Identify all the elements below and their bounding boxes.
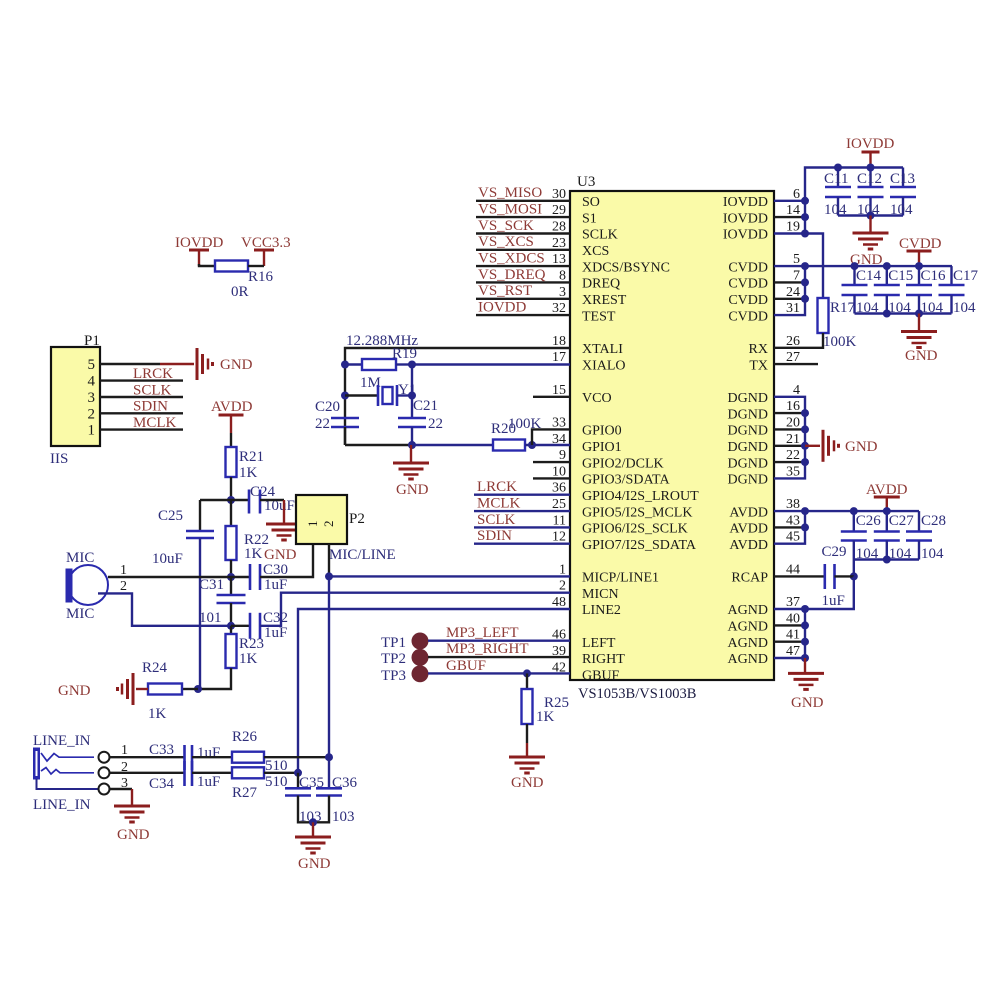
resistor R21 bbox=[226, 447, 237, 477]
capacitor C29 bbox=[823, 575, 825, 577]
svg-text:8: 8 bbox=[559, 268, 566, 283]
svg-text:12: 12 bbox=[552, 530, 566, 545]
svg-text:28: 28 bbox=[552, 220, 566, 235]
node line filter ground junction bbox=[309, 818, 317, 826]
ground rail under crystal bbox=[345, 444, 412, 446]
svg-text:1: 1 bbox=[120, 563, 127, 578]
svg-text:31: 31 bbox=[786, 301, 800, 316]
svg-text:C21: C21 bbox=[413, 398, 438, 414]
svg-text:R26: R26 bbox=[232, 729, 258, 745]
node GBUF junction bbox=[523, 669, 531, 677]
svg-text:2: 2 bbox=[120, 579, 127, 594]
svg-text:1uF: 1uF bbox=[264, 625, 287, 641]
svg-text:AGND: AGND bbox=[728, 603, 768, 618]
wire TP1 net MP3_LEFT bbox=[428, 640, 570, 642]
wire CVDD pin bus bbox=[774, 266, 805, 315]
svg-text:XREST: XREST bbox=[582, 293, 627, 308]
node C11 rail junction bbox=[834, 164, 842, 172]
wire jack pin3 to GND bbox=[110, 788, 133, 790]
svg-text:GND: GND bbox=[791, 695, 824, 711]
svg-text:1K: 1K bbox=[239, 465, 258, 481]
resistor R20 bbox=[493, 440, 525, 451]
wire rail to R24 bbox=[182, 688, 198, 690]
svg-text:47: 47 bbox=[786, 644, 800, 659]
svg-text:3: 3 bbox=[88, 390, 96, 406]
capacitor C33 bbox=[183, 745, 186, 770]
wire XIALO column to C21 bbox=[411, 365, 413, 418]
svg-text:41: 41 bbox=[786, 628, 800, 643]
svg-text:32: 32 bbox=[552, 301, 566, 316]
wire bias node to C25 bbox=[200, 499, 231, 501]
svg-text:C34: C34 bbox=[149, 776, 175, 792]
capacitor C36 bbox=[328, 757, 330, 788]
capacitor C30 bbox=[231, 576, 250, 578]
node CVDD bottom rail junction 1 bbox=[883, 310, 891, 318]
wire net VS_XCS to U3 bbox=[476, 249, 570, 251]
node CVDD bottom rail junction 2 bbox=[915, 310, 923, 318]
wire R21 to bias node bbox=[230, 477, 232, 500]
U3 pin stub bbox=[533, 461, 570, 463]
svg-text:GBUF: GBUF bbox=[446, 658, 486, 674]
wire TP3 net GBUF bbox=[428, 672, 570, 674]
svg-text:C30: C30 bbox=[263, 562, 288, 578]
wire net LRCK to U3 GPIO bbox=[474, 494, 570, 496]
resistor R22 bbox=[230, 500, 232, 526]
svg-text:9: 9 bbox=[559, 448, 566, 463]
svg-text:20: 20 bbox=[786, 415, 800, 430]
wire P1 pin5 to GND bbox=[100, 363, 160, 365]
ground symbol (R25) bbox=[509, 756, 545, 759]
resistor R27 bbox=[232, 767, 264, 778]
capacitor C20 bbox=[331, 417, 359, 420]
U3 pin TX stub bbox=[774, 363, 818, 365]
node DGND junction row 14 bbox=[801, 425, 809, 433]
svg-text:1K: 1K bbox=[244, 546, 263, 562]
svg-text:21: 21 bbox=[786, 432, 800, 447]
ground symbol (IOVDD caps) bbox=[853, 232, 889, 235]
svg-text:104: 104 bbox=[953, 300, 976, 316]
node pin5 junction bbox=[801, 262, 809, 270]
svg-text:40: 40 bbox=[786, 611, 800, 626]
svg-text:C33: C33 bbox=[149, 742, 174, 758]
ground stem (AGND) bbox=[804, 658, 806, 673]
wire net IOVDD to U3 bbox=[476, 314, 570, 316]
svg-text:MIC: MIC bbox=[66, 550, 94, 566]
node pin7 junction bbox=[801, 278, 809, 286]
svg-text:15: 15 bbox=[552, 383, 566, 398]
connector P1 body bbox=[51, 347, 100, 446]
capacitor C16 bbox=[918, 266, 920, 285]
ground symbol (DGND) bbox=[822, 430, 825, 462]
svg-text:XIALO: XIALO bbox=[582, 358, 626, 373]
wire jack pin1 to C33 bbox=[110, 756, 185, 758]
wire C35/C36 to GND bbox=[298, 796, 329, 823]
node pin41 junction bbox=[801, 638, 809, 646]
svg-text:10: 10 bbox=[552, 464, 566, 479]
svg-text:GND: GND bbox=[396, 482, 429, 498]
svg-text:1: 1 bbox=[88, 423, 96, 439]
ground symbol (R24) bbox=[132, 673, 135, 705]
wire AVDD pin bus bbox=[774, 511, 805, 544]
node DGND junction row 16 bbox=[801, 458, 809, 466]
svg-text:2: 2 bbox=[321, 521, 336, 528]
node C14 rail junction bbox=[851, 262, 859, 270]
wire net VS_XDCS to U3 bbox=[476, 265, 570, 267]
svg-text:TP1: TP1 bbox=[381, 635, 406, 651]
ground symbol (AGND) bbox=[788, 672, 824, 675]
ground stem (line filter) bbox=[312, 822, 314, 837]
svg-text:C17: C17 bbox=[953, 268, 979, 284]
svg-text:AGND: AGND bbox=[728, 636, 768, 651]
svg-text:26: 26 bbox=[786, 334, 800, 349]
resistor R19 bbox=[345, 363, 362, 365]
svg-text:SCLK: SCLK bbox=[477, 512, 516, 528]
svg-text:VS_XDCS: VS_XDCS bbox=[478, 251, 545, 267]
wire IOVDD to R16 bbox=[199, 264, 215, 266]
svg-text:SCLK: SCLK bbox=[582, 228, 618, 243]
ground symbol (C24) bbox=[266, 523, 302, 526]
node crystal right junction bbox=[408, 392, 416, 400]
svg-text:C11: C11 bbox=[824, 171, 848, 187]
node AVDD bottom rail junction bbox=[883, 556, 891, 564]
capacitor C11 bbox=[837, 168, 839, 188]
svg-text:AGND: AGND bbox=[728, 620, 768, 635]
svg-text:VS_RST: VS_RST bbox=[478, 283, 532, 299]
wire R17 to RX pin26 bbox=[774, 333, 823, 348]
node DGND junction row 13 bbox=[801, 409, 809, 417]
node DGND junction row 15 bbox=[801, 442, 809, 450]
svg-text:CVDD: CVDD bbox=[728, 309, 768, 324]
svg-text:C26: C26 bbox=[856, 513, 882, 529]
capacitor C17 bbox=[950, 266, 952, 285]
test point TP2 bbox=[412, 649, 429, 666]
svg-text:1uF: 1uF bbox=[822, 593, 845, 609]
wire LINE1 down to line-in network bbox=[328, 576, 330, 757]
wire C34 to R27 bbox=[192, 772, 232, 774]
jack tip contact squiggle bbox=[41, 753, 94, 761]
svg-text:P1: P1 bbox=[84, 333, 100, 349]
svg-text:LINE_IN: LINE_IN bbox=[33, 797, 91, 813]
svg-text:GND: GND bbox=[298, 856, 331, 872]
capacitor C32 bbox=[249, 613, 252, 639]
svg-text:DGND: DGND bbox=[728, 407, 768, 422]
svg-text:GND: GND bbox=[264, 547, 297, 563]
svg-text:C28: C28 bbox=[921, 513, 946, 529]
wire AVDD to R21 bbox=[230, 433, 232, 447]
wire P2 pin2 to U3 MICP/LINE1 bbox=[328, 544, 330, 576]
ground symbol (jack) bbox=[114, 805, 150, 808]
capacitor C26 bbox=[853, 511, 855, 531]
svg-text:1K: 1K bbox=[148, 706, 167, 722]
wire P1 pin 2 net SDIN bbox=[100, 412, 183, 414]
svg-text:11: 11 bbox=[553, 513, 566, 528]
svg-text:1uF: 1uF bbox=[197, 774, 220, 790]
resistor R25 bbox=[522, 689, 533, 724]
svg-text:C15: C15 bbox=[888, 268, 913, 284]
node C26 rail junction bbox=[850, 507, 858, 515]
node C25/R24 junction bbox=[194, 685, 202, 693]
svg-text:RX: RX bbox=[749, 342, 768, 357]
svg-text:C32: C32 bbox=[263, 610, 288, 626]
resistor R16 bbox=[215, 261, 248, 272]
wire ground rail to R20 bbox=[412, 444, 493, 446]
svg-text:C31: C31 bbox=[199, 577, 224, 593]
svg-text:GPIO6/I2S_SCLK: GPIO6/I2S_SCLK bbox=[582, 522, 688, 537]
wire MIC pin2 to C32 node bbox=[98, 593, 231, 625]
svg-text:6: 6 bbox=[793, 187, 800, 202]
wire R27 to LINE2 node bbox=[264, 772, 298, 774]
svg-text:22: 22 bbox=[786, 448, 800, 463]
wire MIC pin1 to mic node bbox=[108, 576, 231, 578]
svg-text:IOVDD: IOVDD bbox=[723, 195, 768, 210]
wire XIALO to U3 bbox=[412, 363, 570, 365]
wire DGND pin bus bbox=[774, 397, 805, 479]
svg-text:C20: C20 bbox=[315, 399, 340, 415]
svg-text:VS_SCK: VS_SCK bbox=[478, 218, 534, 234]
svg-text:22: 22 bbox=[428, 416, 443, 432]
svg-text:GND: GND bbox=[511, 775, 544, 791]
svg-text:LINE2: LINE2 bbox=[582, 603, 621, 618]
svg-text:XDCS/BSYNC: XDCS/BSYNC bbox=[582, 260, 670, 275]
svg-text:1K: 1K bbox=[536, 709, 555, 725]
IC U3 VS1053B/VS1003B body bbox=[570, 191, 774, 680]
bottom rail IOVDD caps bbox=[838, 214, 903, 216]
svg-text:GND: GND bbox=[905, 348, 938, 364]
svg-text:LINE_IN: LINE_IN bbox=[33, 733, 91, 749]
svg-text:GPIO0: GPIO0 bbox=[582, 424, 622, 439]
node pin14 junction bbox=[801, 213, 809, 221]
svg-text:GPIO3/SDATA: GPIO3/SDATA bbox=[582, 473, 670, 488]
jack sleeve wire bbox=[37, 779, 100, 789]
resistor R17 bbox=[818, 298, 829, 333]
node R19 right junction bbox=[408, 361, 416, 369]
svg-text:VS_XCS: VS_XCS bbox=[478, 234, 534, 250]
svg-text:33: 33 bbox=[552, 415, 566, 430]
svg-text:LEFT: LEFT bbox=[582, 636, 616, 651]
jack ring contact squiggle bbox=[41, 768, 94, 775]
svg-text:AVDD: AVDD bbox=[729, 505, 768, 520]
svg-text:R24: R24 bbox=[142, 660, 168, 676]
node C27 rail junction bbox=[883, 507, 891, 515]
svg-text:C12: C12 bbox=[857, 171, 882, 187]
wire C29 to AGND bbox=[835, 575, 854, 577]
svg-text:AVDD: AVDD bbox=[729, 538, 768, 553]
svg-text:IOVDD: IOVDD bbox=[723, 211, 768, 226]
svg-text:GPIO5/I2S_MCLK: GPIO5/I2S_MCLK bbox=[582, 505, 692, 520]
svg-text:IOVDD: IOVDD bbox=[846, 136, 894, 152]
svg-text:SCLK: SCLK bbox=[133, 382, 172, 398]
svg-text:MICP/LINE1: MICP/LINE1 bbox=[582, 571, 659, 586]
svg-text:C27: C27 bbox=[889, 513, 915, 529]
svg-text:GND: GND bbox=[845, 439, 878, 455]
svg-text:MIC: MIC bbox=[66, 606, 94, 622]
wire C21 to ground rail bbox=[411, 427, 413, 445]
wire junction to GPIO0 bbox=[532, 429, 570, 445]
capacitor C34 bbox=[183, 761, 186, 786]
svg-text:SDIN: SDIN bbox=[477, 528, 512, 544]
svg-text:GPIO2/DCLK: GPIO2/DCLK bbox=[582, 456, 664, 471]
svg-text:29: 29 bbox=[552, 203, 566, 218]
wire R24 to GND bbox=[136, 688, 148, 690]
capacitor C31 bbox=[230, 577, 232, 595]
svg-text:LRCK: LRCK bbox=[133, 366, 173, 382]
svg-text:AGND: AGND bbox=[728, 652, 768, 667]
svg-text:1uF: 1uF bbox=[264, 577, 287, 593]
svg-text:XCS: XCS bbox=[582, 244, 609, 259]
svg-text:2: 2 bbox=[559, 579, 566, 594]
node mic input junction bbox=[227, 573, 235, 581]
svg-text:TEST: TEST bbox=[582, 309, 616, 324]
svg-text:1: 1 bbox=[305, 521, 320, 528]
svg-text:22: 22 bbox=[315, 416, 330, 432]
svg-text:GPIO1: GPIO1 bbox=[582, 440, 622, 455]
wire P1 pin 3 net SCLK bbox=[100, 396, 183, 398]
resistor R26 bbox=[232, 752, 264, 763]
node pin24 junction bbox=[801, 295, 809, 303]
wire crystal right bbox=[397, 394, 412, 396]
node pin40 junction bbox=[801, 621, 809, 629]
wire R26 to LINE1 node bbox=[264, 756, 329, 758]
svg-text:AVDD: AVDD bbox=[729, 522, 768, 537]
svg-text:GND: GND bbox=[117, 827, 150, 843]
wire pull-up R17 from IOVDD bus bbox=[805, 234, 823, 299]
jack pin 1 circle bbox=[99, 752, 110, 763]
svg-text:23: 23 bbox=[552, 236, 566, 251]
wire C32 to U3 MICN bbox=[260, 593, 570, 626]
svg-text:38: 38 bbox=[786, 497, 800, 512]
svg-text:TP3: TP3 bbox=[381, 668, 406, 684]
node LINE1 junction bbox=[325, 753, 333, 761]
wire C33 to R26 bbox=[192, 756, 232, 758]
node R19 left tap bbox=[341, 361, 349, 369]
svg-text:C25: C25 bbox=[158, 508, 183, 524]
capacitor C25 bbox=[186, 530, 214, 533]
wire RCAP node down to AGND bus bbox=[805, 576, 854, 609]
node crystal ground junction bbox=[408, 441, 416, 449]
svg-text:1: 1 bbox=[559, 562, 566, 577]
svg-text:C36: C36 bbox=[332, 775, 358, 791]
svg-text:27: 27 bbox=[786, 350, 800, 365]
svg-text:100K: 100K bbox=[823, 334, 857, 350]
svg-text:101: 101 bbox=[199, 610, 222, 626]
svg-text:45: 45 bbox=[786, 530, 800, 545]
node bottom rail junction bbox=[867, 212, 875, 220]
bottom rail AVDD caps bbox=[854, 558, 919, 560]
svg-text:16: 16 bbox=[786, 399, 800, 414]
svg-text:30: 30 bbox=[552, 187, 566, 202]
ground stem (CVDD caps) bbox=[918, 314, 920, 332]
svg-text:CVDD: CVDD bbox=[728, 260, 768, 275]
svg-text:MICN: MICN bbox=[582, 587, 619, 602]
node MICP junction bbox=[325, 572, 333, 580]
svg-text:C14: C14 bbox=[856, 268, 882, 284]
capacitor C28 bbox=[918, 511, 920, 531]
svg-text:R19: R19 bbox=[392, 346, 417, 362]
svg-text:R23: R23 bbox=[239, 636, 264, 652]
svg-text:S1: S1 bbox=[582, 211, 597, 226]
resistor R23 bbox=[230, 626, 232, 634]
svg-text:1: 1 bbox=[121, 743, 128, 758]
ground stem (crystal) bbox=[410, 445, 412, 463]
wire jack pin2 to C34 bbox=[110, 772, 185, 774]
node LINE2 junction bbox=[294, 769, 302, 777]
jack pin 2 circle bbox=[99, 767, 110, 778]
svg-text:RIGHT: RIGHT bbox=[582, 652, 625, 667]
svg-text:VS_DREQ: VS_DREQ bbox=[478, 267, 546, 283]
svg-text:GPIO7/I2S_SDATA: GPIO7/I2S_SDATA bbox=[582, 538, 697, 553]
capacitor C27 bbox=[886, 511, 888, 531]
svg-text:MCLK: MCLK bbox=[133, 415, 177, 431]
svg-text:103: 103 bbox=[332, 809, 355, 825]
ground symbol (P1 pin 5) bbox=[196, 348, 199, 380]
svg-text:DGND: DGND bbox=[728, 473, 768, 488]
svg-text:7: 7 bbox=[793, 268, 800, 283]
wire R25 to GND bbox=[526, 724, 528, 743]
connector P2 body bbox=[296, 495, 347, 544]
svg-text:17: 17 bbox=[552, 350, 566, 365]
svg-text:DGND: DGND bbox=[728, 424, 768, 439]
svg-text:35: 35 bbox=[786, 464, 800, 479]
svg-text:CVDD: CVDD bbox=[728, 293, 768, 308]
svg-text:3: 3 bbox=[559, 285, 566, 300]
node pin6 junction bbox=[801, 197, 809, 205]
wire bottom rail to RCAP node bbox=[853, 560, 855, 577]
svg-text:SO: SO bbox=[582, 195, 600, 210]
capacitor C15 bbox=[886, 266, 888, 285]
svg-text:VS_MISO: VS_MISO bbox=[478, 185, 542, 201]
svg-text:48: 48 bbox=[552, 595, 566, 610]
svg-text:TP2: TP2 bbox=[381, 651, 406, 667]
node crystal left tap bbox=[341, 392, 349, 400]
capacitor C35 bbox=[297, 773, 299, 788]
svg-text:U3: U3 bbox=[577, 174, 595, 190]
wire AVDD rail bbox=[805, 510, 919, 512]
wire C25 to ground rail bbox=[199, 538, 201, 689]
svg-text:36: 36 bbox=[552, 481, 566, 496]
svg-text:C16: C16 bbox=[921, 268, 947, 284]
node pin47 junction bbox=[801, 654, 809, 662]
svg-text:IOVDD: IOVDD bbox=[723, 228, 768, 243]
svg-text:13: 13 bbox=[552, 252, 566, 267]
svg-text:R21: R21 bbox=[239, 449, 264, 465]
wire C30 to P2 pin1 bbox=[260, 544, 313, 577]
wire C24 to GND bbox=[260, 499, 284, 501]
svg-text:GBUF: GBUF bbox=[582, 669, 620, 684]
svg-text:4: 4 bbox=[88, 374, 96, 390]
node pin43 junction bbox=[801, 523, 809, 531]
svg-text:TX: TX bbox=[749, 358, 768, 373]
svg-text:37: 37 bbox=[786, 595, 800, 610]
wire R23 to R24 rail bbox=[198, 668, 231, 689]
wire XTALI net bbox=[345, 348, 570, 445]
wire net VS_MISO to U3 bbox=[476, 200, 570, 202]
svg-text:104: 104 bbox=[921, 546, 944, 562]
svg-text:DGND: DGND bbox=[728, 440, 768, 455]
svg-text:5: 5 bbox=[88, 357, 96, 373]
svg-text:MP3_LEFT: MP3_LEFT bbox=[446, 625, 519, 641]
node GPIO0/GPIO1 junction bbox=[528, 441, 536, 449]
node RCAP junction bbox=[850, 572, 858, 580]
wire R20 to GPIO1 bbox=[525, 444, 570, 446]
svg-text:LRCK: LRCK bbox=[477, 479, 517, 495]
svg-text:RCAP: RCAP bbox=[731, 571, 768, 586]
svg-text:C13: C13 bbox=[890, 171, 915, 187]
ground symbol (crystal) bbox=[393, 462, 429, 465]
svg-text:43: 43 bbox=[786, 513, 800, 528]
wire C20 to ground rail bbox=[344, 427, 346, 445]
wire GBUF to R25 bbox=[526, 673, 528, 689]
capacitor C32 wire bbox=[231, 625, 250, 627]
